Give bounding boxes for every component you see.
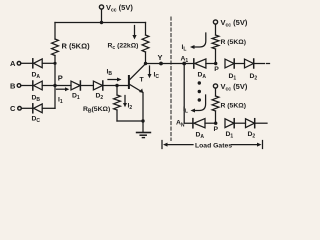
node A1 dot xyxy=(182,62,186,66)
ground xyxy=(137,121,151,138)
node P dot xyxy=(53,84,56,87)
Load Gates dimension line xyxy=(162,141,263,149)
node P dot loadN xyxy=(214,122,217,125)
diode D2 (load gate 1) xyxy=(245,59,265,68)
wire P to D1 xyxy=(55,85,71,87)
current arrow IB xyxy=(108,78,122,82)
wire R load1 to P xyxy=(215,49,217,64)
diode D1 (load gate 1) xyxy=(225,59,245,68)
wire bus A1 to AN xyxy=(184,64,193,124)
wire RB bottom to emitter xyxy=(117,120,143,122)
svg-text:R (5KΩ): R (5KΩ) xyxy=(62,42,91,51)
dashed separator line xyxy=(170,17,172,141)
wire: left drop to R xyxy=(54,23,56,40)
svg-text:Y: Y xyxy=(158,53,163,62)
wire: top rail xyxy=(55,22,146,24)
resistor RB (5KΩ) xyxy=(114,86,121,122)
resistor R load1 xyxy=(212,35,219,49)
diode D1 (driver) xyxy=(71,81,93,90)
Vcc terminal (driver) xyxy=(99,5,103,23)
transistor T emitter with arrow xyxy=(130,85,144,122)
svg-text:Load Gates: Load Gates xyxy=(195,143,232,150)
svg-text:Vcc (5V): Vcc (5V) xyxy=(221,18,248,29)
current arrow I2 xyxy=(123,96,127,108)
node Y dot xyxy=(159,62,163,66)
node dot A-row xyxy=(53,62,56,65)
wire output Y row xyxy=(146,63,194,65)
wire: input bus xyxy=(54,56,56,109)
diode DA (load gate N) xyxy=(193,119,216,128)
wire Rc to collector node xyxy=(145,52,147,64)
diode D1 (load gate N) xyxy=(225,119,246,128)
svg-text:P: P xyxy=(58,74,63,83)
current arrow IL loadN xyxy=(191,95,206,113)
wire Rc drop xyxy=(145,23,147,36)
node: Vcc rail junction dot xyxy=(100,21,103,24)
resistor R (5KΩ) xyxy=(52,39,59,56)
svg-text:A: A xyxy=(10,59,16,68)
input terminal C xyxy=(10,104,33,113)
transistor T collector xyxy=(130,64,146,80)
diode DB (input B) xyxy=(33,81,55,90)
node dot collector Y junction xyxy=(144,62,147,65)
page background xyxy=(0,0,300,152)
current arrow into Rc xyxy=(132,26,136,40)
svg-text:R (5KΩ): R (5KΩ) xyxy=(221,103,246,110)
input terminal A xyxy=(10,59,33,68)
svg-text:B: B xyxy=(10,82,16,91)
node dot RB junction xyxy=(115,84,118,87)
svg-text:Vcc (5V): Vcc (5V) xyxy=(221,82,248,93)
svg-text:R (5KΩ): R (5KΩ) xyxy=(221,39,246,46)
resistor R loadN xyxy=(212,96,219,111)
wire R loadN to P xyxy=(215,111,217,123)
transistor T base bar xyxy=(128,76,130,88)
svg-text:Vcc (5V): Vcc (5V) xyxy=(106,3,133,14)
svg-text:C: C xyxy=(10,104,16,113)
current arrow IC xyxy=(148,66,152,78)
diode D2 (load gate N) xyxy=(246,119,268,128)
current arrow I1 xyxy=(57,87,70,91)
wire stub output load1 xyxy=(267,63,270,65)
diode DA (input A) xyxy=(33,59,55,68)
Vcc terminal load1 xyxy=(213,20,217,35)
Vcc terminal loadN xyxy=(213,84,217,96)
diode DA (load gate 1) xyxy=(194,59,216,68)
current arrow IL load1 xyxy=(190,33,206,49)
diode DC (input C) xyxy=(33,104,55,113)
svg-text:P: P xyxy=(214,126,219,133)
resistor Rc (22kΩ) xyxy=(142,35,149,52)
node P dot load1 xyxy=(214,62,217,65)
node dot emitter/ground junction xyxy=(141,119,144,122)
svg-text:P: P xyxy=(214,66,219,73)
ellipsis dots xyxy=(198,81,201,101)
input terminal B xyxy=(10,82,33,91)
diode D2 (driver) xyxy=(93,81,128,90)
